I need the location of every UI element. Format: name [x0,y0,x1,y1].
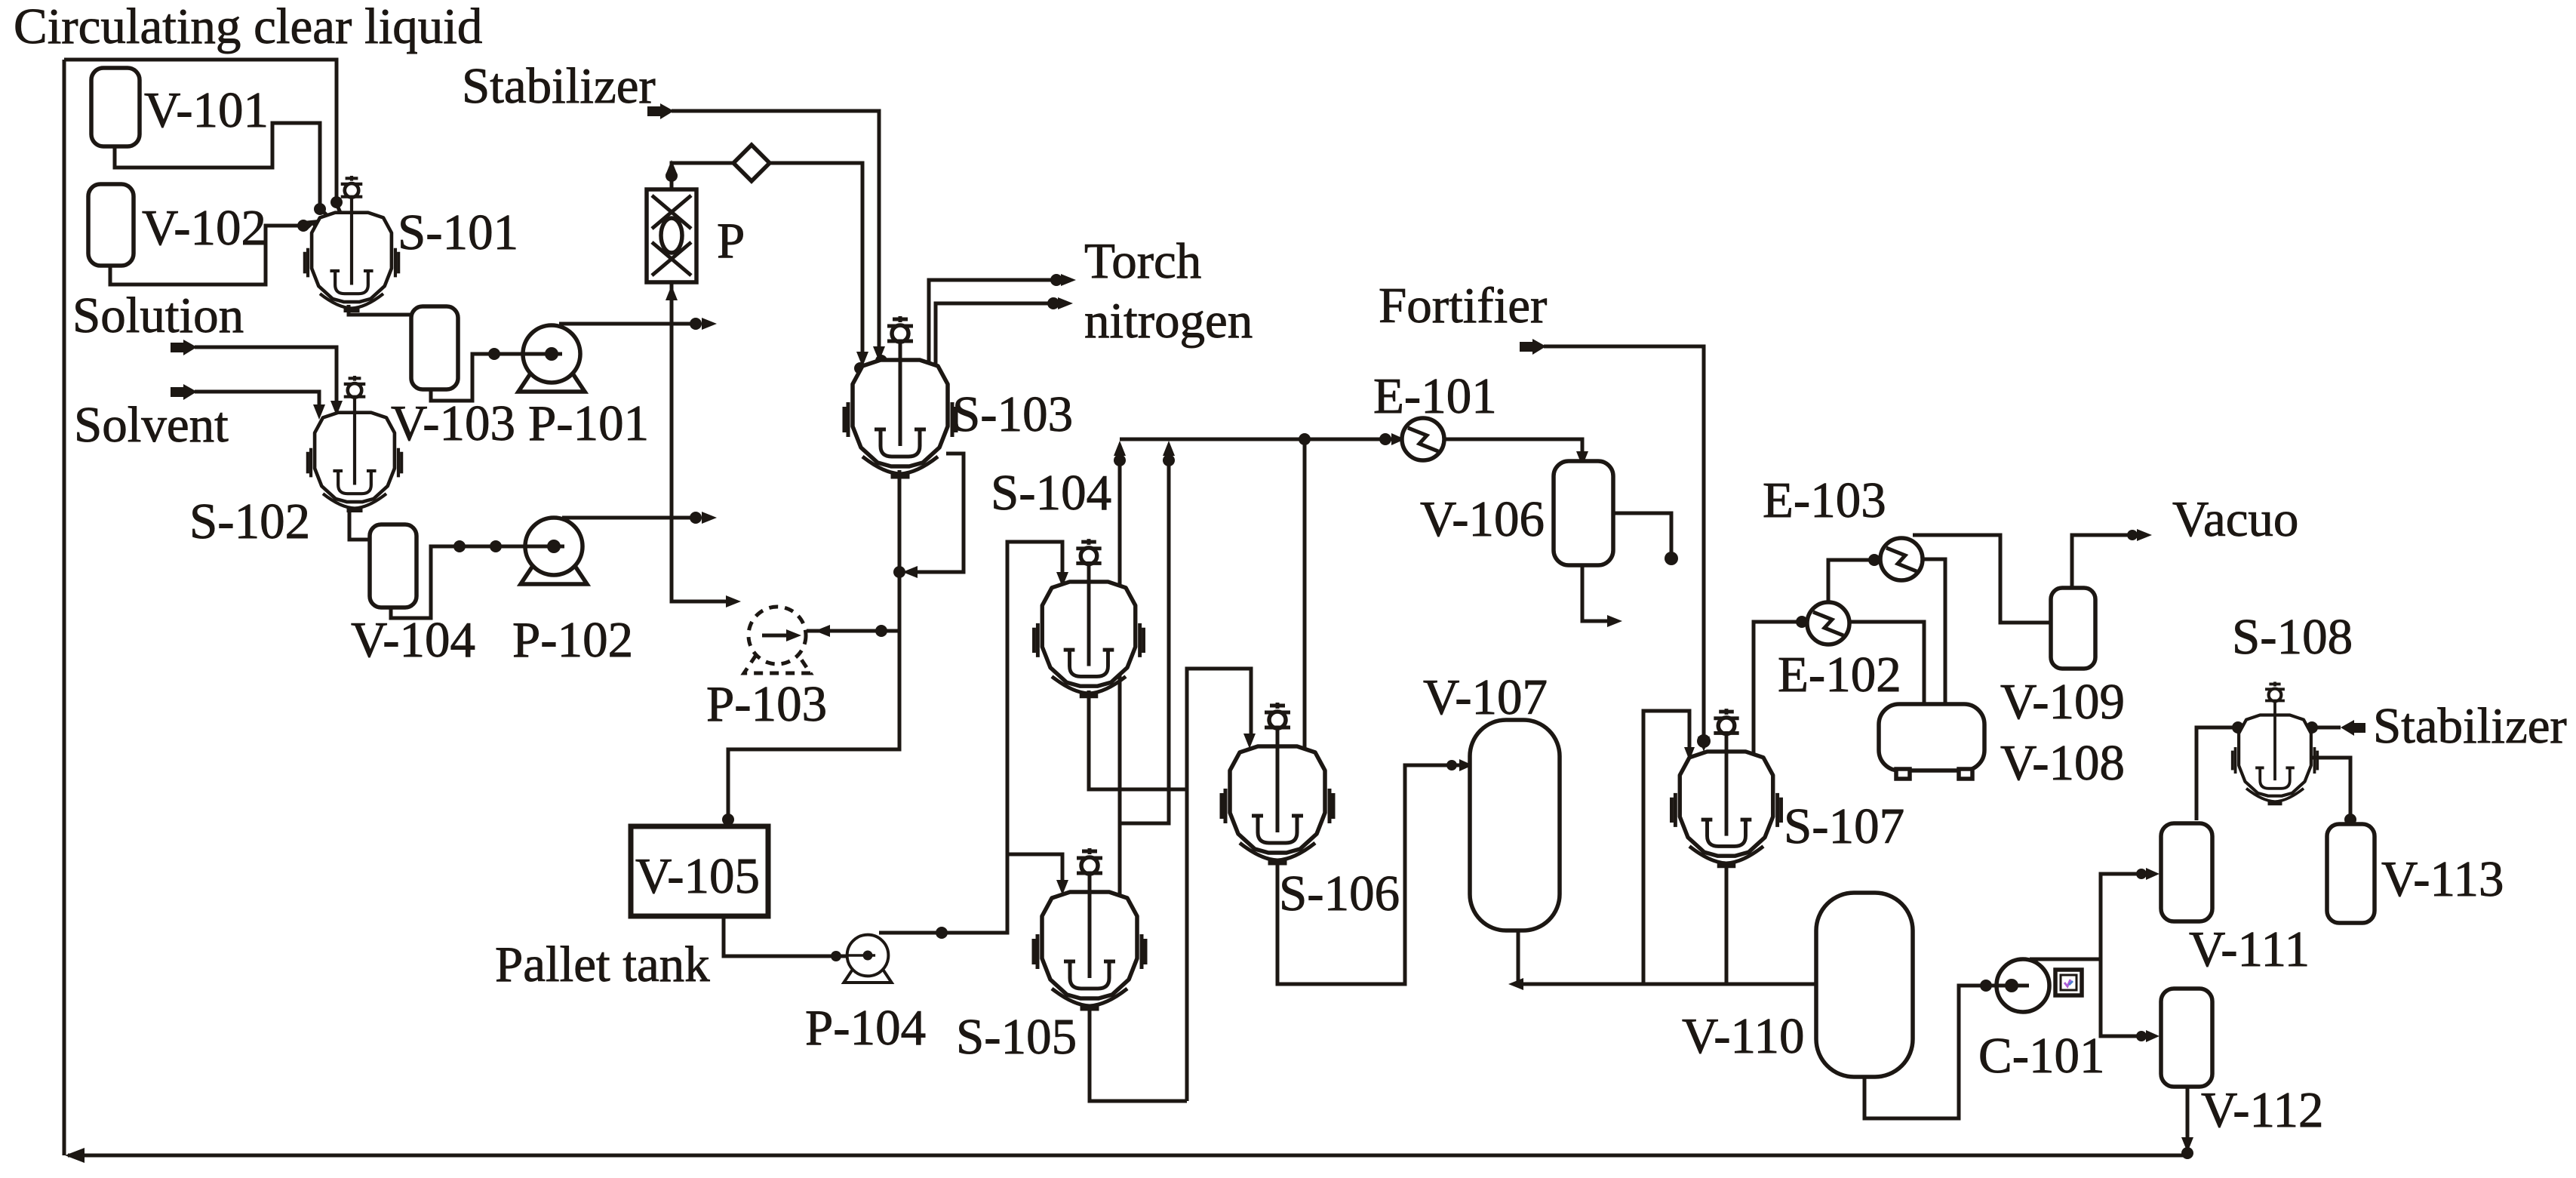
node: dot on vacuo line [2127,530,2138,540]
svg-text:V-104: V-104 [351,612,475,668]
wire: V-101 outlet to S-101 [115,123,329,217]
svg-text:S-106: S-106 [1279,866,1400,921]
big vessel V-107 [1470,720,1560,930]
vessel V-111 [2161,823,2212,921]
wire: S-103 side outlet loop [910,454,964,572]
wire: E-101 outlet to V-106 [1444,439,1582,457]
vessel V-103 [411,306,458,389]
svg-text:V-110: V-110 [1682,1008,1805,1064]
vessel V-113 [2327,824,2375,923]
svg-text:V-111: V-111 [2189,921,2310,977]
wire: E-103 right outlet to V-108 [1923,559,1945,704]
svg-text:V-103: V-103 [391,395,515,451]
svg-text:Circulating clear liquid: Circulating clear liquid [14,0,482,54]
reactor S-102 [308,376,401,511]
vessel V-109 [2051,588,2095,669]
reactor S-105 [1034,848,1145,1009]
arrow: riser into S-107 dome [1684,747,1695,761]
arrow: into P-103 [815,625,830,637]
arrow: into S-103 top left [856,352,868,367]
arrow: into S-107 [1698,737,1710,752]
svg-text:Torch: Torch [1084,233,1201,289]
node: dot before P-104 [831,951,841,961]
wire: left border recycle riser [63,60,66,1155]
heat exchanger E-103 [1880,538,1923,580]
reactor S-106 [1222,703,1333,863]
arrow: Solution into S-102 [330,401,343,416]
wire: header drop to S-106 [1303,439,1307,753]
wire: S-108 outlet to V-113 [2308,758,2350,820]
wire: S-104 drop to S-105 [1120,789,1169,823]
arrow: into S-106 [1243,734,1256,749]
wire: V-105 outlet to P-104 [724,916,863,956]
wire: bottom long recycle line [68,1154,2187,1158]
wire: S-107 bottom outlet [1725,864,1729,984]
wire: V-109 top to Vacuo [2072,535,2135,588]
arrow: bottom-left recycle arrow [65,1148,85,1163]
svg-text:P-104: P-104 [805,1000,926,1056]
pump P-101 [518,325,585,392]
svg-text:S-105: S-105 [956,1009,1077,1065]
wire: V-107 bottom to V-110 [1518,930,1816,984]
arrow: torch arrow [1061,274,1076,286]
wire: E-102 top to E-103 [1828,560,1880,603]
reactor S-107 [1671,709,1781,866]
wire: S-108 left to V-111 [2196,727,2242,820]
node: S-105 riser dot [1114,454,1126,466]
svg-text:Stabilizer: Stabilizer [462,58,656,114]
node: V-102 line dot [297,220,309,232]
node: dot before V-112 [2136,1031,2147,1041]
node: recycle junction dot [2181,1147,2193,1159]
wire: S-106 outlet [1277,765,1467,984]
svg-text:Vacuo: Vacuo [2172,491,2298,547]
vessel V-106 [1554,461,1613,565]
arrow: V-107 bottom corner [1508,978,1523,990]
wire: filter P top to diamond valve [672,163,733,189]
arrow: into V-112 [2146,1030,2159,1042]
vessel V-101 [91,68,140,146]
wire: V-103 outlet to P-101 [431,354,546,401]
node: P-104 discharge dot [936,927,948,939]
wire: Solvent feed [171,387,183,397]
wire: S-108 right stabilizer feed [2308,726,2341,730]
svg-text:S-108: S-108 [2232,609,2353,665]
wire: Fortifier feed [1520,342,1532,352]
node: V-101 line dot [314,203,326,215]
reactor S-101 [305,176,398,311]
wire: Solution feed [171,343,183,352]
wire: V-102 outlet to S-101 [110,226,303,285]
vessel V-104 [370,524,417,607]
arrow: into S-105 [1056,880,1068,895]
arrow: into S-104 [1056,572,1068,587]
svg-text:Solution: Solution [72,288,244,343]
arrow: Vacuo arrow [2137,529,2152,541]
wire: branch to S-105 [1007,854,1062,883]
wire: diamond to S-103 [770,163,862,358]
pump P-104 [844,935,891,983]
wire: Stabilizer top feed to S-103 [647,106,660,116]
wire: S-104 outlet [1089,690,1187,789]
node: dot before V-107 [1446,760,1457,770]
svg-text:V-108: V-108 [2000,735,2125,791]
node: riser dot [1163,454,1175,466]
node: S-103 inlet dot left [854,362,866,374]
wire: header to E-101 [1120,438,1397,441]
svg-text:Pallet tank: Pallet tank [495,937,710,992]
wire: V-106 bottom outlet stub [1582,565,1610,621]
wire: P-103 suction from S-103 line [807,629,899,633]
svg-text:V-112: V-112 [2201,1082,2324,1138]
wire: V-112 bottom to recycle [2186,1087,2190,1152]
svg-text:Stabilizer: Stabilizer [2373,698,2567,754]
node: junction S-103 outlet [893,566,905,578]
node: dot above V-113 [2344,814,2356,826]
arrow: stabilizer right feed [2341,720,2354,736]
wire: P-101 discharge [559,322,699,326]
svg-text:P: P [717,213,745,269]
node: S-103 inlet dot right [875,355,887,367]
arrow: loop into main line [902,566,918,578]
wire: V-110 bottom to C-101 [1864,986,2016,1118]
svg-text:E-102: E-102 [1778,647,1901,703]
svg-text:S-103: S-103 [952,386,1073,442]
node: P-101 discharge dot [690,318,702,330]
horizontal drum V-108 [1879,704,1984,779]
big vessel V-110 [1816,893,1913,1077]
arrow: into V-107 [1459,759,1473,771]
node: dots before P-102 [453,540,466,552]
arrow: Solvent into S-102 [313,404,325,420]
node: dot before P-101 [488,348,500,360]
wire: S-103 bottom outlet down [728,470,899,825]
svg-text:Fortifier: Fortifier [1379,278,1547,334]
arrow: up into diamond line [666,160,678,175]
rectangle tank V-105 [631,826,768,916]
node: stub end dot [1665,552,1678,565]
svg-text:S-102: S-102 [189,494,310,549]
wire: Torch line [929,280,1056,371]
svg-text:P-101: P-101 [528,395,649,451]
arrow: S-105 riser into header [1114,441,1126,456]
reactor S-108 [2233,681,2317,804]
arrow: stub arrow [1607,615,1622,627]
vessel V-112 [2161,989,2212,1087]
node: dot on P-103 line [875,625,887,637]
wire: C-101 branch to V-112 [2101,959,2150,1036]
pump P-102 [521,518,587,584]
svg-text:S-107: S-107 [1784,798,1904,854]
compressor C-101 [1997,959,2049,1012]
diamond valve [733,145,770,181]
svg-text:V-106: V-106 [1420,491,1545,547]
arrow: into recycle line [2181,1137,2193,1152]
reactor S-104 [1034,539,1143,697]
C-101 control box [2055,970,2082,995]
arrow: into E-101 [1391,433,1405,445]
vessel V-102 [88,184,134,266]
wire: nitrogen line [936,303,1053,375]
svg-text:V-102: V-102 [142,200,266,256]
wire: S-107 vapor to E-102 [1754,622,1807,755]
wire: V-104 outlet to P-102 [391,546,549,618]
node: dot below diamond corner [666,170,678,182]
svg-text:C-101: C-101 [1978,1028,2105,1084]
wire: V-106 right outlet stub [1613,513,1671,554]
arrow: into P-103 suction [726,595,741,607]
arrow: up into filter P [666,285,678,300]
wire: S-104 riser to header [1167,447,1171,789]
wire: riser to S-107 feed [1643,711,1689,984]
svg-text:V-101: V-101 [144,82,269,138]
wire: S-105 outlet to riser [1090,1004,1187,1101]
svg-text:V-109: V-109 [2000,674,2125,730]
node: dot before E-102 [1796,616,1808,628]
node: header dot at S-106 drop [1299,433,1311,445]
svg-text:S-101: S-101 [398,205,518,260]
svg-text:E-101: E-101 [1373,368,1497,424]
heat exchanger E-101 [1402,418,1444,460]
wire: C-101 discharge header [2030,874,2150,959]
wire: E-102 right outlet to V-108 [1850,622,1924,704]
node: dot before V-111 [2136,869,2147,879]
wire: P-102 discharge [562,516,699,520]
node: nitrogen dot [1047,297,1059,309]
node: dot before E-103 [1868,554,1880,566]
node: S-108 left dot [2232,721,2244,734]
svg-text:nitrogen: nitrogen [1084,293,1253,349]
wire: filter P bottom line down to P-103 [672,282,736,601]
wire: S-105 vapor riser [1118,447,1122,898]
arrow: P-101 discharge arrow [702,318,717,330]
arrow: nitrogen arrow [1058,297,1073,309]
svg-text:V-107: V-107 [1423,669,1548,725]
svg-text:S-104: S-104 [991,465,1111,521]
arrow: into V-111 [2146,868,2159,880]
arrow: into V-106 [1576,451,1588,466]
wire: top recycle line to S-101 [64,60,341,214]
wire: S-102 outlet to V-104 [349,510,370,540]
node: torch dot [1050,274,1062,286]
svg-text:Solvent: Solvent [74,397,229,453]
wire: S-101 outlet to V-103 [349,305,411,315]
node: dot before C-101 [1980,980,1992,992]
pump P-103 dashed [744,607,810,673]
arrow: V-102 into S-101 [303,220,318,231]
arrow: riser into header [1163,441,1175,456]
node: top line junction dot [330,196,343,208]
svg-text:P-102: P-102 [512,612,633,668]
arrow: stabilizer into S-103 [873,346,885,361]
reactor S-103 [844,316,956,477]
filter P [647,189,696,282]
arrow: P-102 discharge arrow [702,512,717,524]
svg-text:P-103: P-103 [706,676,827,732]
node: dot above V-105 [722,814,734,826]
node: S-108 right dot [2306,721,2318,734]
svg-text:V-105: V-105 [635,848,760,904]
wire: E-103 top outlet to V-109 [1913,535,2051,623]
wire: P-104 discharge riser [879,542,1062,933]
svg-text:V-113: V-113 [2381,851,2504,907]
heat exchanger E-102 [1807,602,1849,644]
node: P-102 discharge dot [690,512,702,524]
node: dot before E-101 [1379,433,1391,445]
node: S-107 inlet dot [1697,734,1711,748]
wire: transfer riser to S-106 [1187,669,1251,1101]
svg-text:E-103: E-103 [1763,472,1886,528]
